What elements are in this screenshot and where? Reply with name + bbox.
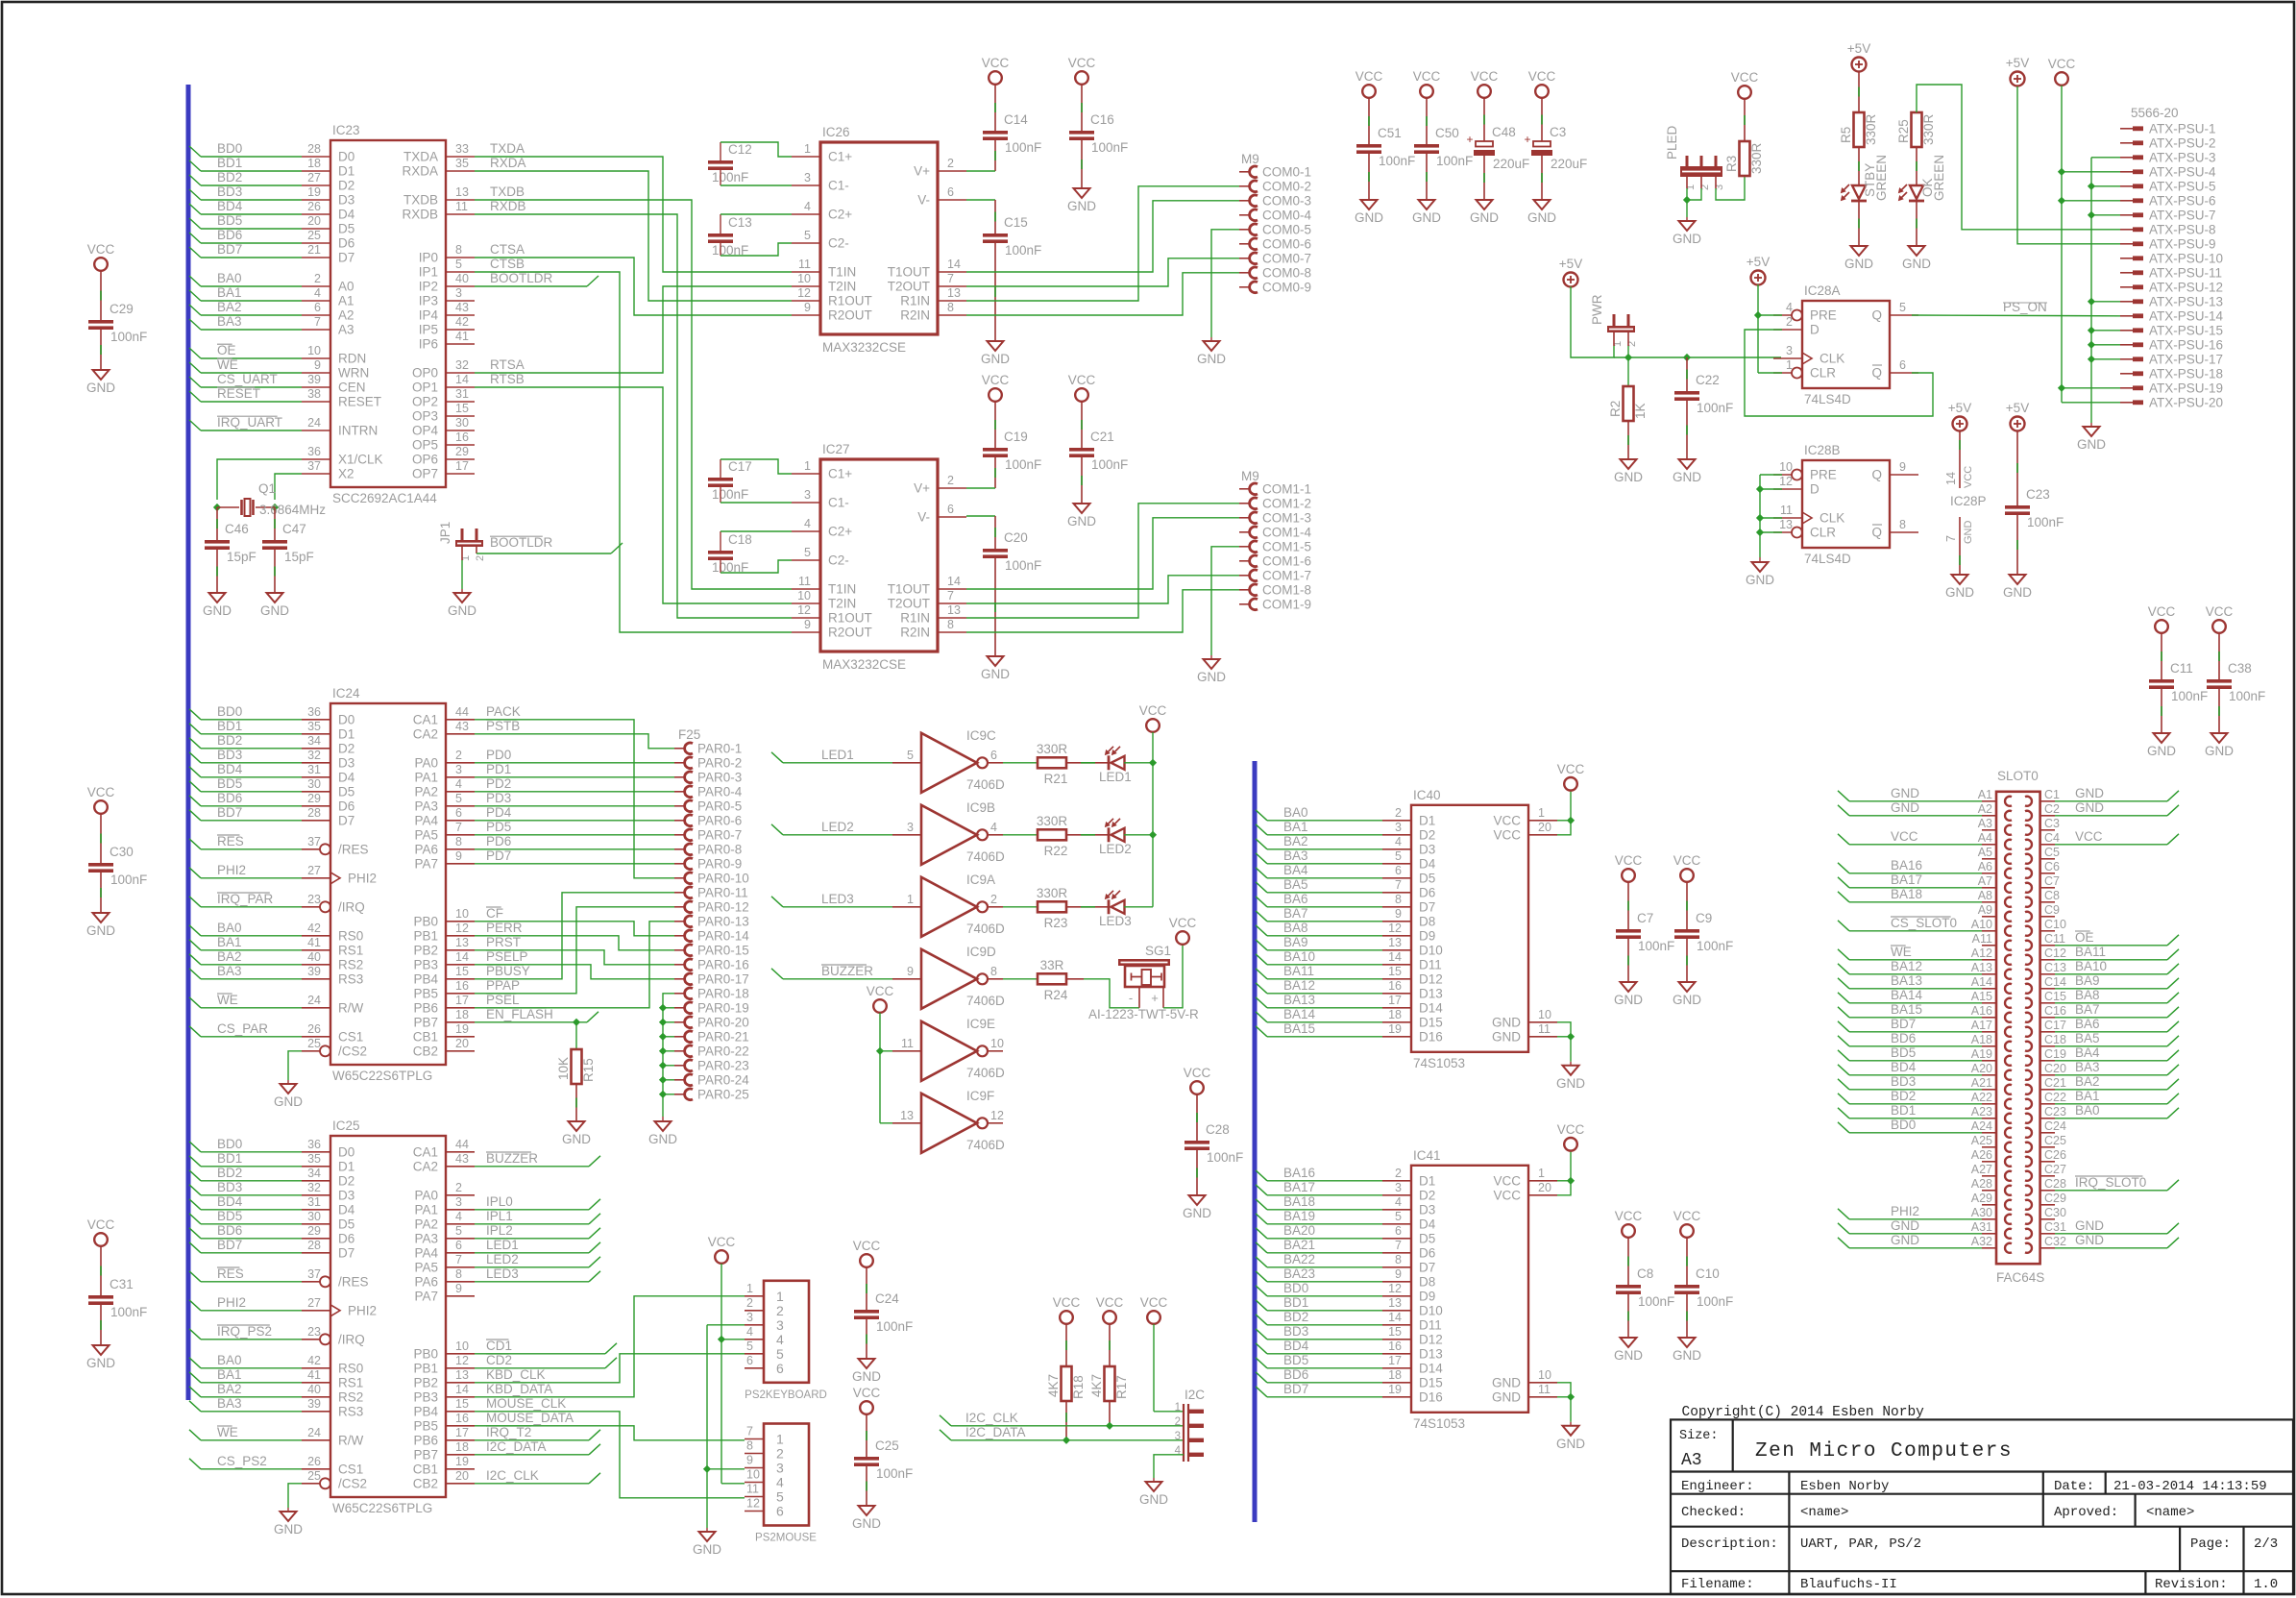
wire C47-GND: [274, 550, 276, 593]
svg-text:C29: C29: [2044, 1192, 2066, 1205]
LED LED2: [1108, 827, 1111, 842]
pad ATX-PSU-17: [2120, 358, 2133, 360]
svg-text:IC28A: IC28A: [1804, 283, 1841, 298]
svg-text:C13: C13: [2044, 961, 2066, 974]
wire X2: [275, 474, 302, 500]
svg-text:/CS2: /CS2: [338, 1476, 367, 1490]
svg-text:BA8: BA8: [2075, 988, 2100, 1002]
bus entry: [1256, 1242, 1267, 1253]
wire BD7: [1849, 1031, 1982, 1033]
svg-text:TXDB: TXDB: [490, 184, 525, 199]
svg-text:T1OUT: T1OUT: [888, 582, 930, 597]
bus entry: [1256, 810, 1267, 821]
svg-text:RESET: RESET: [217, 386, 260, 401]
pin 9 (R2OUT): [792, 631, 820, 633]
pin 11: [892, 1050, 921, 1052]
wire I2C4-GND: [1154, 1455, 1184, 1478]
svg-text:31: 31: [307, 763, 321, 776]
svg-text:IC9C: IC9C: [966, 728, 996, 743]
svg-text:20: 20: [307, 214, 321, 228]
svg-text:IC25: IC25: [332, 1119, 360, 1133]
svg-text:D1: D1: [1419, 1173, 1435, 1188]
svg-text:BD1: BD1: [1891, 1103, 1916, 1118]
svg-text:BUZZER: BUZZER: [821, 964, 873, 978]
bus BD/BA (left): [186, 85, 191, 1400]
svg-text:R1IN: R1IN: [900, 611, 930, 626]
svg-text:OE: OE: [217, 343, 236, 357]
svg-text:LED1: LED1: [821, 748, 854, 762]
svg-text:23: 23: [307, 893, 321, 906]
junction: [1756, 485, 1764, 493]
pin 7 (D6): [1382, 1252, 1411, 1254]
svg-text:2: 2: [1786, 315, 1793, 329]
svg-text:100nF: 100nF: [110, 330, 147, 344]
svg-text:16: 16: [1388, 979, 1402, 993]
junction: [718, 1336, 725, 1343]
svg-text:VCC: VCC: [1615, 853, 1643, 868]
svg-text:20: 20: [1538, 1181, 1551, 1194]
svg-text:GND: GND: [1614, 470, 1643, 484]
pin 2 (A0): [302, 285, 330, 287]
pin 32 (D3): [302, 762, 330, 764]
pin 3 (D2): [1382, 1194, 1411, 1196]
svg-text:+5V: +5V: [1746, 255, 1770, 269]
svg-text:BA1: BA1: [217, 935, 242, 949]
pin A23: [1982, 1118, 1996, 1119]
ground: [1621, 459, 1637, 469]
svg-text:BA0: BA0: [2075, 1103, 2100, 1118]
wire T1OUT-COM1-3: [966, 518, 1239, 589]
svg-text:BD6: BD6: [1283, 1367, 1308, 1382]
svg-text:BD5: BD5: [217, 776, 242, 791]
svg-text:PB4: PB4: [413, 971, 438, 986]
svg-text:T1OUT: T1OUT: [888, 265, 930, 280]
wire LED-VCC: [1124, 906, 1153, 908]
pin 7 (T2OUT): [938, 285, 966, 287]
svg-text:RTSB: RTSB: [490, 372, 525, 386]
pin 16 (PB5): [446, 993, 475, 995]
svg-text:10: 10: [746, 1468, 760, 1482]
wire C10-GND: [1686, 1294, 1688, 1338]
svg-text:D15: D15: [1419, 1375, 1443, 1389]
svg-text:GND: GND: [693, 1542, 721, 1557]
svg-text:Q: Q: [1871, 366, 1882, 381]
svg-text:RS1: RS1: [338, 943, 363, 957]
pin 39 (CEN): [302, 386, 330, 388]
bus entry: [189, 247, 201, 258]
svg-text:R2IN: R2IN: [900, 308, 930, 323]
pad PAR0-13: [674, 921, 686, 922]
wire MOUSE_CLK: [475, 1412, 745, 1498]
svg-text:PACK: PACK: [486, 704, 521, 719]
svg-text:C14: C14: [2044, 975, 2066, 989]
svg-text:CLR: CLR: [1810, 366, 1836, 381]
svg-text:41: 41: [307, 936, 321, 949]
pad PAR0-7: [674, 834, 686, 836]
svg-text:PA6: PA6: [414, 842, 438, 856]
pin 8 (PA6): [446, 848, 475, 850]
svg-text:VCC: VCC: [1413, 69, 1441, 84]
svg-text:PB2: PB2: [413, 1375, 438, 1389]
svg-text:3: 3: [1395, 821, 1402, 834]
svg-text:13: 13: [1388, 936, 1402, 949]
pin 42 (RS0): [302, 935, 330, 937]
svg-text:CLK: CLK: [1820, 352, 1844, 366]
svg-text:9: 9: [455, 849, 462, 863]
svg-text:17: 17: [455, 1426, 469, 1439]
wire X1: [217, 459, 302, 500]
pin A1: [1982, 800, 1996, 802]
junction: [659, 1076, 667, 1084]
pin C15: [2040, 1002, 2055, 1004]
svg-text:GND: GND: [1067, 199, 1096, 213]
ground: [1679, 459, 1696, 469]
bus entry: [189, 290, 201, 301]
svg-text:7: 7: [1944, 535, 1958, 542]
wire VCC: [1557, 821, 1571, 835]
wire GND: [2055, 1247, 2167, 1249]
svg-text:41: 41: [307, 1368, 321, 1382]
svg-text:10: 10: [797, 272, 811, 285]
wire VCC-PS2: [721, 1264, 722, 1484]
svg-text:Blaufuchs-II: Blaufuchs-II: [1800, 1577, 1897, 1592]
ground: [1563, 1066, 1579, 1075]
pin 5 (D4): [1382, 863, 1411, 865]
svg-text:BD4: BD4: [217, 762, 243, 776]
svg-text:BA3: BA3: [217, 314, 242, 329]
pad COM0-5: [1239, 229, 1251, 231]
pin 3 (CLK): [1773, 357, 1802, 359]
pad PAR0-6: [674, 820, 686, 822]
pin 3 (PA1): [446, 1209, 475, 1211]
wire BA2: [2055, 1089, 2167, 1091]
pin C2: [2040, 815, 2055, 817]
junction: [659, 1062, 667, 1069]
pin 27 (D2): [302, 184, 330, 186]
svg-text:3: 3: [1395, 1181, 1402, 1194]
svg-text:D11: D11: [1419, 957, 1442, 971]
pad COM0-1: [1239, 171, 1251, 173]
svg-text:A28: A28: [1971, 1177, 1992, 1191]
pin A29: [1982, 1204, 1996, 1206]
pin 12 (D9): [1382, 935, 1411, 937]
bus entry: [1256, 839, 1267, 849]
svg-text:D0: D0: [338, 150, 354, 164]
svg-text:PB7: PB7: [413, 1015, 438, 1029]
wire T1OUT-COM0-3: [966, 201, 1239, 272]
ground: [1146, 1482, 1162, 1491]
IC IC28A body: [1802, 301, 1890, 388]
svg-text:11: 11: [746, 1483, 759, 1496]
pin 43 (CA2): [446, 1166, 475, 1168]
pin A18: [1982, 1045, 1996, 1047]
svg-text:COM0-1: COM0-1: [1262, 164, 1311, 179]
svg-text:BD0: BD0: [217, 704, 242, 719]
svg-text:C6: C6: [2044, 860, 2060, 873]
pin 2 (PA0): [446, 762, 475, 764]
pin 8 (PA6): [446, 1281, 475, 1283]
bus entry: [189, 1026, 201, 1037]
svg-text:A15: A15: [1971, 990, 1992, 1003]
IC IC24 body: [330, 703, 446, 1065]
capacitor C25: [854, 1457, 879, 1461]
svg-text:LED1: LED1: [1099, 770, 1132, 784]
svg-text:COM0-8: COM0-8: [1262, 265, 1311, 280]
svg-text:C29: C29: [110, 302, 134, 316]
svg-text:Description:: Description:: [1681, 1537, 1778, 1552]
pad PAR0-15: [674, 949, 686, 951]
wire GND: [1557, 1022, 1571, 1037]
svg-text:1: 1: [746, 1282, 753, 1295]
svg-text:BUZZER: BUZZER: [486, 1151, 538, 1166]
svg-text:INTRN: INTRN: [338, 424, 378, 438]
svg-text:1: 1: [804, 142, 811, 156]
svg-text:CTSB: CTSB: [490, 257, 525, 271]
svg-text:T2IN: T2IN: [828, 280, 856, 294]
svg-text:BD3: BD3: [217, 748, 242, 762]
pin C7: [2040, 887, 2055, 889]
svg-text:7: 7: [455, 1253, 462, 1266]
wire BA4: [2055, 1060, 2167, 1062]
svg-text:14: 14: [1388, 1311, 1402, 1324]
svg-text:PAR0-1: PAR0-1: [697, 741, 742, 755]
svg-text:VCC: VCC: [1673, 853, 1701, 868]
pad COM1-8: [1239, 589, 1251, 591]
svg-text:8: 8: [990, 965, 997, 978]
svg-text:PLED: PLED: [1665, 125, 1679, 160]
wire BA13: [1849, 988, 1982, 990]
pin 9 (PA7): [446, 863, 475, 865]
svg-text:6: 6: [746, 1354, 753, 1367]
pad ATX-PSU-7: [2120, 214, 2133, 216]
ground: [1204, 341, 1220, 351]
svg-text:9: 9: [907, 965, 914, 978]
svg-text:IP1: IP1: [419, 265, 438, 280]
pin 9 (WRN): [302, 372, 330, 374]
wire RXDA: [475, 171, 792, 301]
pin 5 (D4): [1382, 1223, 1411, 1225]
svg-text:3: 3: [746, 1311, 753, 1324]
svg-text:30: 30: [307, 777, 321, 791]
svg-text:BOOTLDR: BOOTLDR: [490, 535, 553, 550]
pin 35 (RXDA): [446, 170, 475, 172]
svg-text:COM1-6: COM1-6: [1262, 553, 1311, 568]
wire GND: [2055, 800, 2167, 802]
pin 36 (D0): [302, 1151, 330, 1153]
svg-text:PA0: PA0: [414, 755, 438, 770]
wire VCC rail for LEDs: [1152, 732, 1154, 907]
svg-text:PD2: PD2: [486, 776, 511, 791]
wire PS_ON: [1912, 314, 2120, 317]
svg-text:D2: D2: [1419, 827, 1435, 842]
svg-text:VCC: VCC: [87, 1217, 115, 1232]
svg-text:PAR0-5: PAR0-5: [697, 799, 742, 813]
svg-text:A20: A20: [1971, 1062, 1992, 1075]
junction: [2058, 168, 2065, 176]
junction: [2088, 211, 2095, 219]
wire VCC-C7: [1627, 882, 1629, 929]
svg-text:C12: C12: [2044, 947, 2066, 960]
pin A24: [1982, 1132, 1996, 1134]
svg-text:36: 36: [307, 705, 321, 719]
wire BA1: [2055, 1103, 2167, 1105]
wire BA18: [1849, 901, 1982, 903]
IC28P power pin 7 (GND): [1959, 517, 1961, 546]
capacitor C14: [983, 131, 1008, 135]
junction: [1756, 529, 1764, 536]
svg-text:100nF: 100nF: [1697, 939, 1733, 953]
wire BUZZER: [783, 978, 892, 980]
svg-text:PAR0-12: PAR0-12: [697, 899, 749, 914]
svg-text:15pF: 15pF: [284, 550, 314, 564]
pin 8 (D7): [1382, 906, 1411, 908]
svg-text:JP1: JP1: [438, 522, 452, 544]
pad PAR0-24: [674, 1079, 686, 1081]
wire C21-GND: [1081, 457, 1083, 504]
resistor R23: [1038, 901, 1066, 912]
svg-text:ATX-PSU-5: ATX-PSU-5: [2149, 179, 2216, 193]
svg-text:+5V: +5V: [1847, 41, 1870, 56]
svg-text:PSEL: PSEL: [486, 993, 520, 1007]
svg-text:C30: C30: [2044, 1206, 2066, 1219]
svg-text:2: 2: [1175, 1416, 1181, 1428]
svg-text:18: 18: [455, 1440, 469, 1454]
ground: [1909, 246, 1925, 256]
svg-text:PAR0-9: PAR0-9: [697, 856, 742, 871]
svg-text:TXDA: TXDA: [403, 150, 438, 164]
capacitor C13: [708, 234, 733, 237]
svg-text:D5: D5: [338, 1217, 354, 1231]
wire VCC-C28: [1196, 1094, 1198, 1141]
svg-text:/CS2: /CS2: [338, 1044, 367, 1058]
svg-text:11: 11: [1780, 504, 1793, 517]
svg-text:CS_PAR: CS_PAR: [217, 1021, 268, 1036]
svg-text:18: 18: [1388, 1368, 1402, 1382]
bus entry: [189, 1271, 201, 1282]
svg-text:COM0-6: COM0-6: [1262, 236, 1311, 251]
svg-text:VCC: VCC: [1493, 1173, 1521, 1188]
pin C1: [2040, 800, 2055, 802]
svg-text:BD2: BD2: [1283, 1310, 1308, 1324]
svg-text:26: 26: [307, 1022, 321, 1036]
svg-text:GND: GND: [1492, 1375, 1521, 1389]
svg-text:100nF: 100nF: [876, 1319, 913, 1334]
ground: [2010, 575, 2026, 584]
pin 6: [988, 762, 1003, 764]
svg-text:39: 39: [307, 1397, 321, 1411]
wire PD6: [475, 848, 674, 850]
pin C22: [2040, 1103, 2055, 1105]
svg-text:IP0: IP0: [419, 251, 438, 265]
svg-text:BA15: BA15: [1891, 1002, 1922, 1017]
svg-text:GND: GND: [1527, 210, 1556, 225]
junction: [659, 1019, 667, 1026]
svg-text:PAR0-4: PAR0-4: [697, 784, 743, 799]
svg-text:5: 5: [804, 546, 811, 559]
svg-text:11: 11: [798, 258, 811, 271]
capacitor C10: [1674, 1285, 1699, 1289]
svg-text:I2C_DATA: I2C_DATA: [965, 1425, 1026, 1439]
svg-text:3: 3: [776, 1461, 784, 1476]
svg-text:OP5: OP5: [412, 438, 438, 453]
svg-text:M9: M9: [1241, 469, 1259, 483]
svg-text:15: 15: [455, 1397, 469, 1411]
bus entry: [1256, 1300, 1267, 1311]
svg-text:7406D: 7406D: [966, 777, 1005, 792]
svg-text:A1: A1: [338, 294, 354, 308]
junction: [876, 1047, 884, 1055]
wire C20-GND: [994, 558, 996, 656]
pin 13 (CLR): [1773, 531, 1792, 533]
svg-text:A4: A4: [1978, 831, 1992, 845]
svg-text:+: +: [1466, 133, 1473, 146]
bus entry: [1256, 1387, 1267, 1397]
svg-text:2/3: 2/3: [2254, 1537, 2278, 1552]
junction: [2058, 197, 2065, 205]
pin 36 (X1/CLK): [302, 458, 330, 460]
pin 15 (D12): [1382, 978, 1411, 980]
pad PAR0-14: [674, 935, 686, 937]
pad COM1-5: [1239, 546, 1251, 548]
svg-text:IC28P: IC28P: [1950, 494, 1987, 508]
junction: [2058, 384, 2065, 392]
svg-text:C10: C10: [2044, 918, 2066, 931]
svg-text:C3: C3: [2044, 817, 2060, 830]
pin 10 (T2IN): [792, 602, 820, 604]
pin 15 (D12): [1382, 1339, 1411, 1340]
svg-text:GND: GND: [1492, 1015, 1521, 1029]
svg-text:14: 14: [455, 1383, 469, 1396]
pin 41 (RS1): [302, 1382, 330, 1384]
svg-text:C22: C22: [1696, 373, 1720, 387]
pad ATX-PSU-20: [2120, 402, 2133, 404]
bus entry: [189, 897, 201, 907]
svg-text:C11: C11: [2170, 661, 2193, 676]
junction: [2088, 356, 2095, 363]
svg-text:BD5: BD5: [217, 1209, 242, 1223]
svg-text:ATX-PSU-8: ATX-PSU-8: [2149, 222, 2216, 236]
pad ATX-PSU-1: [2120, 128, 2133, 130]
svg-text:PPAP: PPAP: [486, 978, 520, 993]
wire CS_SLOT0: [1849, 930, 1982, 932]
svg-text:MOUSE_DATA: MOUSE_DATA: [486, 1411, 574, 1425]
svg-text:GND: GND: [1614, 1348, 1643, 1363]
svg-text:C32: C32: [2044, 1235, 2066, 1248]
svg-text:IC27: IC27: [822, 442, 850, 456]
capacitor C3 (electrolytic): [1533, 141, 1551, 147]
pin 14 (T1OUT): [938, 588, 966, 590]
pad ATX-PSU-15: [2120, 330, 2133, 332]
wire I2C_CLK: [951, 1425, 1184, 1427]
wire PERR: [475, 936, 674, 950]
svg-text:4: 4: [1395, 1195, 1402, 1209]
svg-text:PA2: PA2: [414, 784, 438, 799]
bus entry: [189, 1242, 201, 1253]
svg-text:COM1-5: COM1-5: [1262, 539, 1311, 553]
svg-text:29: 29: [307, 792, 321, 805]
wire +5V-ATX9: [2017, 86, 2120, 244]
svg-text:GND: GND: [203, 603, 232, 618]
wire BA0: [2055, 1118, 2167, 1119]
svg-text:A26: A26: [1971, 1148, 1992, 1162]
pin 18 (D15): [1382, 1021, 1411, 1023]
svg-text:D4: D4: [338, 208, 355, 222]
svg-text:39: 39: [307, 965, 321, 978]
bus entry: [1256, 1286, 1267, 1296]
bus entry: [189, 319, 201, 330]
wire +5V-R5: [1858, 71, 1860, 112]
svg-text:D9: D9: [1419, 1289, 1435, 1303]
